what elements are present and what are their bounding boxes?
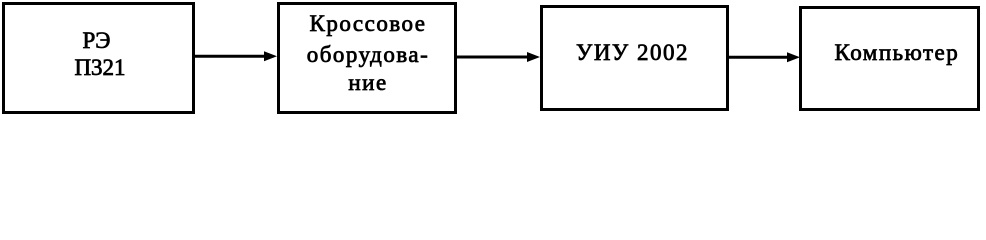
label УИУ 2002 bbox=[541, 41, 724, 64]
block Кроссовое оборудование bbox=[277, 2, 457, 114]
label Компьютер bbox=[809, 41, 984, 64]
wire arrow 3: УИУ 2002 to Компьютер bbox=[728, 52, 800, 62]
wire arrow 1: РЭ П321 to Кроссовое оборудование bbox=[194, 51, 277, 61]
block Компьютер bbox=[799, 6, 980, 111]
label РЭ П321 bbox=[7, 27, 194, 82]
label Кроссовое оборудование bbox=[281, 9, 455, 97]
block УИУ 2002 bbox=[540, 5, 729, 111]
block РЭ П321 bbox=[2, 2, 195, 114]
wire arrow 2: Кроссовое оборудование to УИУ 2002 bbox=[456, 52, 540, 62]
